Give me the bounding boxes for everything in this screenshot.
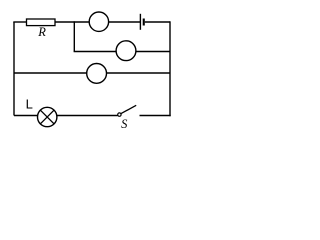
wire: branch 3 horizontal to meter 3 [14,72,87,74]
switch S pivot circle [118,113,121,116]
lamp cross stroke 1 [40,110,54,124]
switch S blade [121,105,136,113]
wire: branch 2 vertical drop [73,21,75,51]
wire: bottom left to lamp [14,115,38,117]
wire: resistor to ammeter A1 [55,21,89,23]
resistor R [27,19,56,26]
wire: battery to right vertical [145,21,170,23]
battery long plate [139,14,141,30]
meter circle 3 [87,64,107,84]
wire: top left segment to resistor [13,21,26,23]
svg-text:R: R [37,25,46,39]
meter circle 2 [116,41,136,61]
lamp circle [38,107,57,126]
battery short plate [143,19,145,26]
wire: lamp to switch [57,115,118,117]
wire: branch 2 horizontal to meter 2 [74,51,117,53]
wire: switch to right vertical [140,115,171,117]
wire: right vertical [169,21,171,116]
wire: left vertical [13,22,15,116]
svg-text:S: S [121,117,128,131]
wire: meter 2 to right vertical [136,51,170,53]
svg-text:L: L [26,97,33,112]
lamp cross stroke 2 [40,110,54,124]
meter circle 1 [89,12,108,31]
wire: meter 3 to right vertical [107,72,171,74]
wire: meter 1 to battery [109,21,141,23]
